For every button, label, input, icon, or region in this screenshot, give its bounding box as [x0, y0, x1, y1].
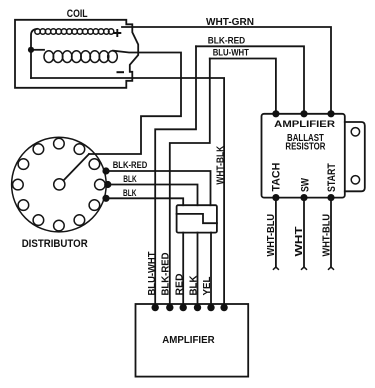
node distributor terminal 1 (BLK-RED)	[102, 167, 109, 174]
svg-text:BLU-WHT: BLU-WHT	[147, 252, 158, 296]
wire end fork TACH	[273, 267, 279, 270]
svg-text:BLU-WHT: BLU-WHT	[213, 48, 250, 58]
wire WHT-BLK: coil - terminal down to amplifier terminal 6	[31, 78, 224, 308]
wire distributor BLK to connector	[108, 185, 198, 206]
svg-text:SW: SW	[299, 178, 311, 192]
svg-text:RED: RED	[175, 274, 186, 296]
svg-text:WHT-BLK: WHT-BLK	[216, 145, 227, 184]
node amplifier terminal 4	[194, 304, 201, 311]
connector C1 mating step line	[177, 214, 217, 223]
coil secondary winding (bottom, large loops)	[44, 51, 117, 63]
node ballast top terminal 1	[272, 110, 279, 117]
node ballast bottom terminal START	[327, 194, 334, 201]
node distributor terminal 3 (BLK)	[102, 195, 109, 202]
wire distributor BLK to connector	[106, 198, 183, 205]
wire rotor arm diagonal	[64, 154, 89, 180]
wire connector to amplifier terminal 5	[210, 233, 212, 308]
connector C1 (inline connector)	[177, 205, 217, 232]
ballast resistor box	[262, 114, 345, 198]
node amplifier terminal 3	[180, 304, 187, 311]
svg-text:RESISTOR: RESISTOR	[285, 140, 325, 152]
wire end fork START	[328, 267, 334, 270]
coil primary winding (top, small loops)	[35, 29, 114, 34]
distributor body circle	[12, 137, 107, 232]
svg-text:BLK: BLK	[123, 188, 136, 199]
node ballast top terminal 3	[327, 110, 334, 117]
svg-text:COIL: COIL	[67, 8, 88, 20]
wire WHT-GRN: coil + to ballast START-side top terminal	[122, 27, 331, 114]
svg-text:AMPLIFIER: AMPLIFIER	[274, 119, 335, 129]
wire connector to amplifier terminal 3	[182, 233, 184, 308]
svg-text:WHT-BLU: WHT-BLU	[265, 214, 277, 257]
wire end fork SW	[301, 267, 307, 270]
coil outer case (connector shell)	[15, 20, 138, 88]
svg-text:START: START	[326, 163, 338, 192]
svg-text:AMPLIFIER: AMPLIFIER	[162, 335, 215, 346]
svg-text:BLK: BLK	[123, 174, 136, 185]
ballast resistor mounting tab	[345, 122, 365, 191]
svg-text:BLK-RED: BLK-RED	[161, 253, 172, 296]
wire BLK-RED (top): to ballast middle top terminal, and down to amplifier terminal 1	[196, 46, 304, 114]
distributor rotor center circle	[54, 179, 65, 190]
node distributor terminal 2 (BLK)	[104, 181, 111, 188]
node ballast top terminal 2	[300, 110, 307, 117]
svg-text:BLK: BLK	[189, 275, 200, 296]
svg-text:YEL: YEL	[202, 277, 213, 296]
junction dot coil left tap	[28, 47, 34, 53]
svg-text:WHT-BLU: WHT-BLU	[320, 214, 332, 257]
node ballast bottom terminal TACH	[272, 194, 279, 201]
svg-text:TACH: TACH	[270, 163, 282, 192]
coil inner frame (left vertical with rounded corner)	[31, 29, 37, 78]
svg-text:DISTRIBUTOR: DISTRIBUTOR	[22, 238, 88, 250]
wire START down	[330, 198, 332, 267]
node amplifier terminal 6	[220, 304, 227, 311]
node amplifier terminal 2	[166, 304, 173, 311]
svg-text:WHT-GRN: WHT-GRN	[206, 16, 254, 28]
wire SW down	[303, 198, 305, 267]
wire BLU-WHT (top): to ballast left top terminal, and down to amplifier terminal 2	[210, 59, 276, 114]
svg-text:WHT: WHT	[293, 226, 305, 257]
node amplifier terminal 1	[152, 304, 159, 311]
amplifier box	[136, 304, 249, 377]
mounting hole bottom	[351, 176, 359, 184]
wire TACH down	[275, 198, 277, 267]
mounting hole top	[351, 128, 359, 136]
coil - terminal label	[117, 71, 125, 73]
wire connector to amplifier terminal 4	[197, 233, 199, 308]
distributor cap towers (12 small circles)	[13, 138, 106, 231]
node amplifier terminal 5	[207, 304, 214, 311]
wire distributor BLK-RED to connector	[106, 171, 211, 205]
wire coil middle tap to distributor rotor	[89, 51, 181, 154]
coil + terminal label	[113, 29, 121, 37]
wire secondary winding top line	[31, 49, 44, 51]
svg-text:BLK-RED: BLK-RED	[113, 160, 148, 171]
node ballast bottom terminal SW	[300, 194, 307, 201]
svg-text:BLK-RED: BLK-RED	[208, 35, 246, 45]
